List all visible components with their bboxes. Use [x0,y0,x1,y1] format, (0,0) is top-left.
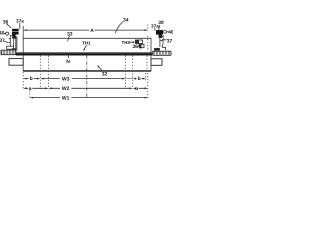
svg-text:b: b [30,76,33,82]
extension line W3 left (dashed) [39,56,41,89]
nip tick N [68,55,70,58]
svg-text:a: a [29,86,32,92]
extension line A/W1 right (dashed) [147,25,149,32]
svg-text:TH2: TH2 [122,40,131,45]
dimension line W1 [33,97,145,99]
svg-text:W2: W2 [62,86,70,92]
svg-text:40: 40 [168,30,173,36]
extension line W1 left (dashed) [29,91,31,99]
extension line b right outer (dashed) [145,73,147,81]
dimension line a right [135,87,145,89]
right end block [151,59,162,66]
left flange foot box [7,46,14,49]
small circle terminal 40 (left) [6,32,9,35]
left bearing block (dark) [12,29,19,35]
svg-text:33: 33 [67,31,73,37]
leader for 32 [98,66,102,71]
dimension line A [26,29,145,31]
dimension line b left [26,78,38,80]
sensor box 36 (two cells) [139,44,144,47]
svg-text:TH1: TH1 [82,41,91,46]
roller left edge [22,26,24,71]
leader for 36 (left) [7,24,12,28]
heater band (dark hatched bar) [16,53,152,56]
leader dash 40 right [167,31,169,33]
thermistor box TH2 (two cells) [135,40,142,44]
roller top line 33 [23,37,151,39]
leader 37a right [154,28,156,31]
svg-text:37a: 37a [16,19,24,24]
left flange inner double wall [12,36,17,50]
leader for 37a (left) : vertical [19,23,21,29]
dimension line W2 [51,87,130,89]
leader dash 36-right [137,45,139,47]
svg-text:37: 37 [167,38,173,44]
left flange bracket [10,35,13,46]
roller right edge [150,38,152,71]
svg-text:39: 39 [158,20,164,26]
svg-text:A: A [90,28,94,34]
right bearing block (dark) [156,30,163,34]
connector W3/b right [126,78,133,80]
extension line W2 left (dashed) [48,56,50,90]
leader for 34 [115,22,123,34]
left end block [9,59,23,66]
leader 37 right [162,39,167,41]
svg-text:a: a [135,86,138,92]
right flange bracket [160,35,163,47]
dimension line W3 [43,78,123,80]
dimension line a left [26,87,46,89]
dimension line b right [135,78,143,80]
svg-text:36: 36 [132,44,138,50]
leader 39 [159,25,160,30]
small circle terminal 40 (right) [164,30,167,33]
right flange step [162,44,165,50]
leader dash for 40 (left) [4,32,6,34]
right flange foot blob [154,48,160,51]
small dashes below sensor box [140,48,142,50]
left heater stub (hatched) [1,50,16,55]
centerline (dash-dot) [86,55,88,98]
svg-text:b: b [138,76,141,82]
arrow TH2 to sensor box [129,41,133,43]
leader for 37 (left) [4,41,8,42]
svg-text:W3: W3 [62,76,70,82]
extension line W2 right (dashed) [132,56,134,90]
left edge extension (dashed, below) [22,72,24,90]
leader for 33 [68,36,70,42]
svg-text:N: N [66,59,70,65]
svg-text:32: 32 [102,71,108,77]
right heater stub (hatched) [153,51,172,55]
extension line W3 right (dashed) [124,56,126,89]
leader arrow for TH1 [84,45,86,49]
svg-text:W1: W1 [62,95,70,101]
svg-text:34: 34 [123,17,129,23]
roller bottom edge (thick) [23,70,151,72]
